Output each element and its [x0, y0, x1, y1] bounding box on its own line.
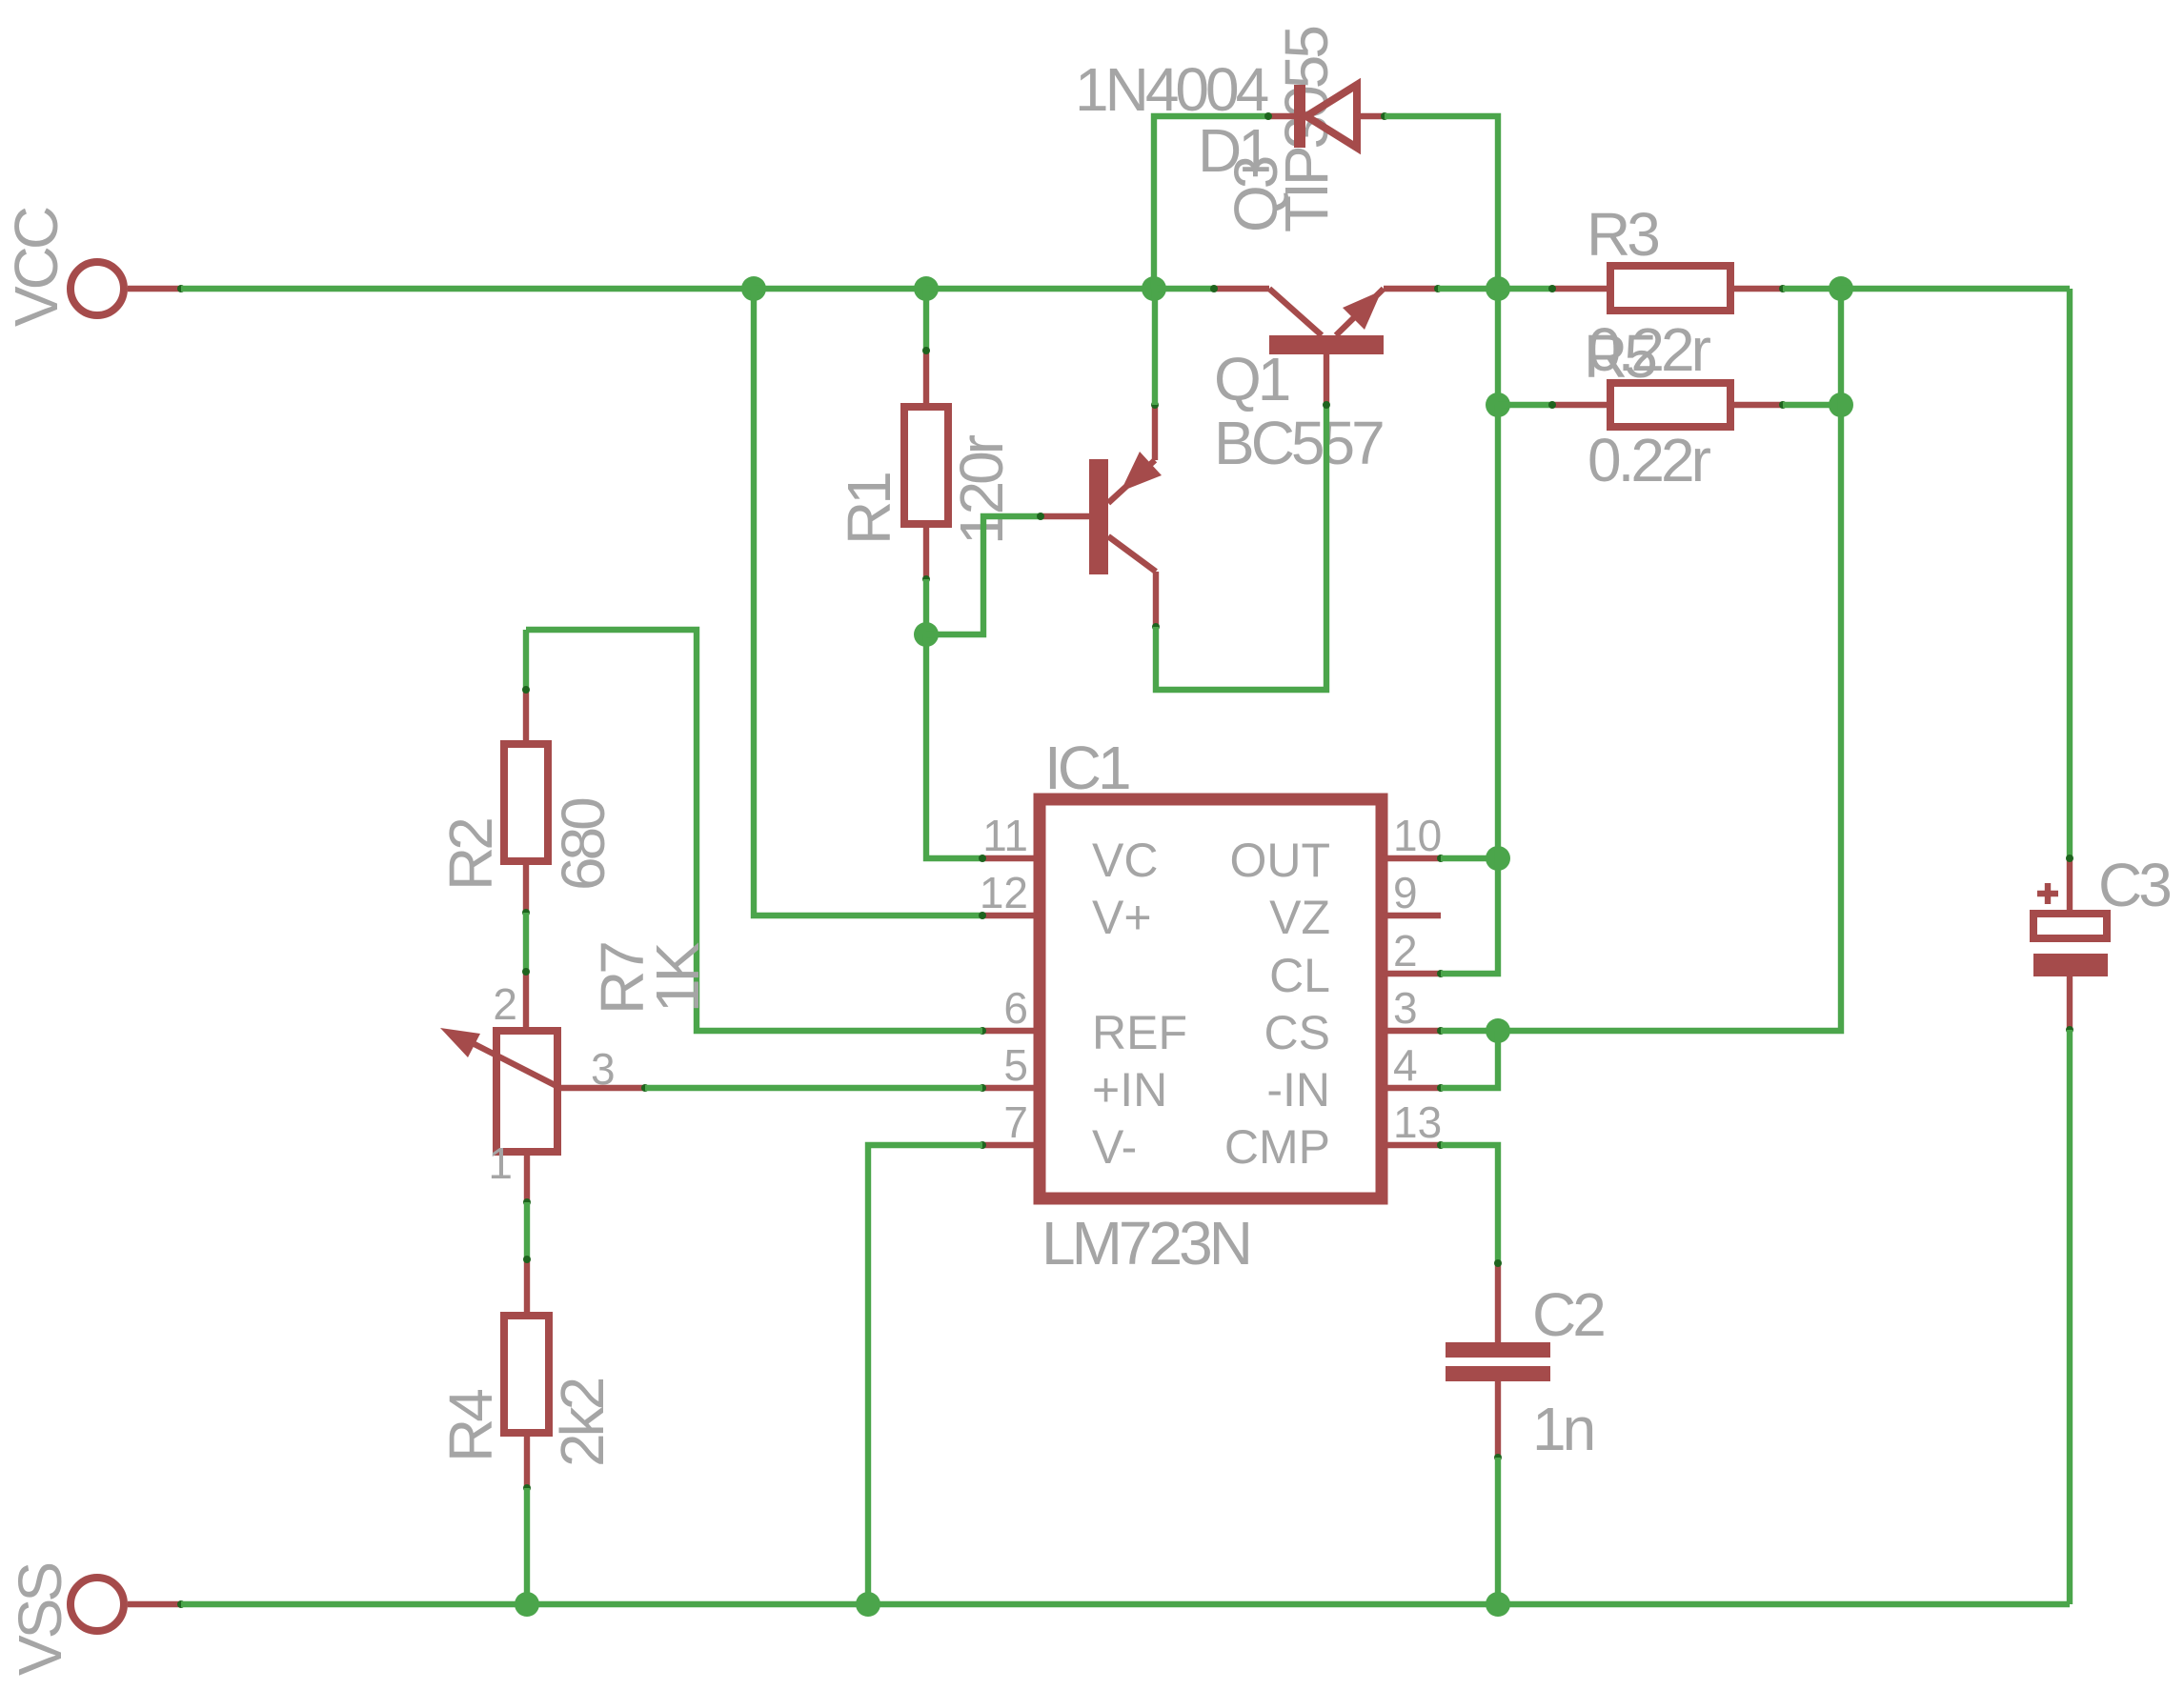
junction J5 (1572,303): [1486, 276, 1510, 301]
resistor R2: [504, 686, 548, 916]
wire R3 left stub: [1498, 286, 1554, 292]
svg-text:R1: R1: [835, 473, 903, 545]
svg-text:1n: 1n: [1532, 1395, 1593, 1463]
supply pin VCC: [71, 262, 185, 315]
wire right rail lower: [2067, 1030, 2073, 1604]
svg-text:LM723N: LM723N: [1041, 1209, 1249, 1278]
wire VCC rail seg4 to Q3 collector: [1154, 286, 1214, 292]
wire R1 bottom: [923, 579, 929, 634]
junction J9 (1572,901): [1486, 846, 1510, 871]
svg-text:VSS: VSS: [6, 1564, 74, 1676]
junction J8 (1932,425): [1829, 392, 1853, 417]
resistor R1: [904, 347, 948, 583]
svg-text:Q1: Q1: [1214, 345, 1289, 413]
svg-text:CL: CL: [1269, 949, 1330, 1002]
svg-text:7: 7: [1003, 1097, 1028, 1147]
wire rail to top-right corner: [1841, 286, 2070, 292]
svg-text:13: 13: [1393, 1097, 1442, 1147]
potentiometer R7: [440, 968, 649, 1206]
junction J10 (1572,1082): [1486, 1018, 1510, 1043]
wire Q1 emitter to rail: [1152, 289, 1158, 405]
resistor R5: [1548, 383, 1787, 427]
capacitor C3: [2033, 855, 2108, 1034]
wire R1 top drop: [923, 289, 929, 352]
wire pin11 drop: [926, 634, 982, 858]
wire 1932 down to CS row: [1498, 405, 1841, 1031]
svg-text:2k2: 2k2: [548, 1378, 617, 1467]
svg-text:VC: VC: [1092, 834, 1158, 887]
svg-text:VZ: VZ: [1269, 891, 1330, 944]
wire CMP pin to C2: [1441, 1145, 1498, 1265]
svg-text:1: 1: [488, 1138, 513, 1188]
wire VCC rail seg1: [181, 286, 754, 292]
wire CS node to -IN pin: [1441, 1031, 1498, 1088]
svg-text:CS: CS: [1264, 1006, 1330, 1059]
wire R2 to R7: [523, 913, 529, 974]
pin 4 -IN: [1382, 1084, 1445, 1092]
svg-text:680: 680: [549, 798, 617, 891]
svg-text:BC557: BC557: [1214, 409, 1383, 477]
svg-text:C3: C3: [2098, 851, 2170, 919]
resistor R4: [504, 1256, 549, 1492]
pin 11 VC: [979, 855, 1040, 862]
svg-text:R5: R5: [1584, 322, 1655, 391]
junction J4 (972,666): [914, 622, 939, 647]
svg-text:9: 9: [1393, 868, 1418, 917]
svg-text:2: 2: [493, 979, 517, 1029]
svg-text:REF: REF: [1092, 1006, 1187, 1059]
pin 10 OUT: [1382, 855, 1445, 862]
wire pin12 riser: [754, 289, 982, 915]
wire VSS rail: [181, 1601, 2070, 1607]
wire R5 left stub: [1498, 402, 1554, 408]
junction J6 (1932,303): [1829, 276, 1853, 301]
svg-text:R4: R4: [436, 1390, 505, 1462]
wire REF route: [526, 630, 982, 1031]
wire R4 bottom: [524, 1488, 530, 1604]
wire Q3 emitter to J5: [1438, 286, 1498, 292]
transistor Q1 BC557: [1037, 401, 1162, 631]
svg-text:5: 5: [1003, 1040, 1028, 1090]
wire node to CL pin: [1441, 858, 1498, 974]
svg-text:D1: D1: [1198, 116, 1269, 185]
junction J13 (1572,1684): [1486, 1592, 1510, 1617]
supply pin VSS: [71, 1578, 185, 1631]
svg-text:R2: R2: [436, 819, 505, 891]
wire J5 down to R5: [1495, 289, 1501, 405]
wire R5 right: [1783, 402, 1841, 408]
junction J7 (1572,425): [1486, 392, 1510, 417]
wire wiper to +IN: [645, 1085, 982, 1091]
wire right column 1932: [1838, 289, 1844, 405]
wire OUT to node: [1441, 855, 1498, 861]
svg-text:3: 3: [591, 1044, 616, 1094]
svg-text:12: 12: [980, 868, 1028, 917]
junction J12 (911,1684): [856, 1592, 880, 1617]
wire VCC rail seg2: [754, 286, 926, 292]
capacitor C2: [1446, 1259, 1550, 1461]
svg-text:1K: 1K: [643, 942, 712, 1013]
wire right rail upper: [2067, 289, 2073, 858]
junction J1 (791,303): [741, 276, 766, 301]
wire R7 to R4: [524, 1202, 530, 1259]
wire R3 right: [1783, 286, 1841, 292]
pin 2 CL: [1382, 970, 1445, 977]
junction J11 (553,1684): [515, 1592, 539, 1617]
svg-text:V-: V-: [1092, 1120, 1137, 1174]
IC IC1 LM723N box: [1040, 799, 1382, 1198]
wire VCC rail seg3: [926, 286, 1154, 292]
svg-text:11: 11: [982, 811, 1028, 860]
pin 12 V+: [979, 912, 1040, 919]
wire V- route: [868, 1145, 982, 1604]
pin 5 +IN: [979, 1084, 1040, 1092]
svg-text:+IN: +IN: [1092, 1063, 1167, 1117]
svg-text:2: 2: [1393, 926, 1418, 976]
pin 6 REF: [979, 1027, 1040, 1035]
wire D1 left riser: [1154, 116, 1268, 289]
svg-text:OUT: OUT: [1229, 834, 1330, 887]
svg-text:V+: V+: [1092, 891, 1152, 944]
junction J3 (1211,303): [1142, 276, 1166, 301]
svg-text:VCC: VCC: [2, 208, 71, 327]
junction J2 (972,303): [914, 276, 939, 301]
svg-text:0.22r: 0.22r: [1587, 426, 1711, 494]
svg-text:-IN: -IN: [1266, 1063, 1330, 1117]
wire C2 bottom drop: [1495, 1458, 1501, 1604]
diode D1: [1264, 85, 1388, 148]
wire CS to node: [1441, 1028, 1498, 1034]
resistor R3: [1548, 266, 1787, 311]
svg-text:R3: R3: [1587, 200, 1658, 269]
pin 13 CMP: [1382, 1141, 1445, 1149]
svg-text:6: 6: [1003, 983, 1028, 1033]
pin 9 VZ: [1382, 913, 1441, 918]
svg-text:3: 3: [1393, 983, 1418, 1033]
svg-text:CMP: CMP: [1224, 1120, 1330, 1174]
transistor Q3 TIP3055: [1210, 285, 1442, 409]
svg-text:10: 10: [1393, 811, 1442, 860]
wire Q1 collector to Q3 base: [1156, 405, 1326, 690]
wire D1 right drop: [1385, 116, 1498, 289]
pin 3 CS: [1382, 1027, 1445, 1035]
wire node column 1572 upper: [1495, 405, 1501, 858]
wire Q1 base link: [926, 516, 1041, 634]
svg-text:1N4004: 1N4004: [1075, 55, 1268, 124]
svg-text:C2: C2: [1532, 1280, 1604, 1349]
svg-text:4: 4: [1393, 1040, 1418, 1090]
svg-text:IC1: IC1: [1044, 734, 1129, 802]
wire R2 top: [523, 630, 529, 692]
pin 7 V-: [979, 1141, 1040, 1149]
